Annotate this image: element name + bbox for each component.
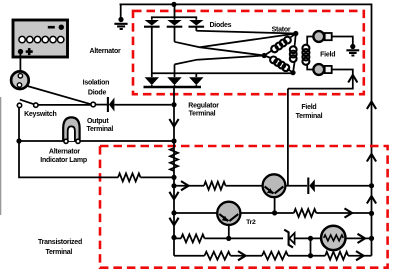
wire: diode bridge bottom bus — [144, 86, 202, 88]
resistor R6 — [205, 252, 231, 260]
current arrow: right along bottom row — [238, 251, 246, 260]
alternator boundary (red dashed box) — [133, 11, 364, 94]
node: indicator lamp row junction — [171, 138, 176, 143]
resistor R8 — [325, 252, 348, 260]
isolation diode D7 — [108, 97, 115, 112]
svg-text:Diodes: Diodes — [209, 22, 231, 29]
wire: thermistor to right rail — [346, 237, 372, 239]
svg-text:Indicator Lamp: Indicator Lamp — [40, 157, 87, 164]
node: top rail junction above diode bridge — [171, 2, 176, 7]
wire: bridge column 1 (phase A tap) — [151, 28, 153, 77]
svg-text:Isolation: Isolation — [83, 79, 110, 86]
wire: Tr2 lead down to zener row — [228, 225, 230, 239]
wire: R6 to R7 — [230, 255, 262, 257]
current arrow: right into Tr1 row — [181, 181, 189, 190]
field winding (rotor coil) — [307, 37, 313, 70]
current arrow: down on regulator lead — [169, 119, 178, 127]
node: thermistor/divider junction — [308, 236, 313, 241]
svg-text:Transistorized: Transistorized — [38, 239, 82, 246]
svg-text:Stator: Stator — [272, 26, 291, 33]
diode D1 (bridge, top row) — [144, 20, 160, 29]
current arrow: up on right rail (lower) — [367, 196, 376, 204]
resistor R2 (lamp shunt row) — [118, 173, 141, 181]
wire: keyswitch to output terminal — [38, 104, 91, 106]
svg-text:Terminal: Terminal — [45, 249, 72, 256]
thermistor TH1 — [321, 226, 345, 250]
resistor R4 (Tr1 emitter to rail) — [294, 209, 316, 217]
brush B2 (bottom slip ring brush) — [313, 64, 324, 75]
wire: ammeter to output terminal (diagonal) — [27, 86, 91, 104]
brush B1 (top slip ring brush) — [313, 31, 324, 42]
resistor R5 (zener feed) — [181, 234, 205, 242]
transistor Tr1 — [263, 174, 286, 197]
wire: top ground rail from alternator ground to right-hand return rail — [120, 4, 372, 255]
alternator indicator lamp LP1 — [63, 117, 80, 143]
current arrow: down between rows — [169, 218, 178, 226]
wire: output terminal to isolation diode — [96, 104, 108, 106]
wire: bottom brush to field terminal drop — [288, 70, 353, 89]
wire: phase lead, column 1 to stator bottom terminal — [152, 72, 293, 74]
wire: isolation diode to regulator terminal — [114, 104, 171, 106]
wire: Tr2 row left segment — [174, 212, 294, 214]
wire: R4 to right rail — [316, 212, 371, 214]
ground (alternator case ground, top left) — [114, 24, 127, 29]
current arrow: right toward rail — [358, 234, 366, 243]
wire: top brush to field ground — [332, 37, 353, 47]
node: stator left node — [262, 53, 267, 58]
node: divider tap bottom junction — [308, 253, 313, 258]
wire: battery positive to ammeter — [19, 54, 21, 72]
svg-text:Alternator: Alternator — [49, 148, 80, 155]
battery BAT1 — [13, 20, 68, 57]
scan artifact: faint gray line at left edge — [0, 97, 1, 215]
wire: R7 to R8 — [288, 255, 325, 257]
keyswitch SW1 — [17, 100, 38, 108]
wire: field terminal vertical lead down to Tr1 row — [287, 89, 289, 186]
wire: divider tap vertical — [310, 238, 312, 255]
node: stator bottom terminal — [290, 70, 295, 75]
wire: Tr1 row left segment — [174, 185, 204, 187]
stator winding: right vertical coil — [293, 34, 296, 73]
resistor R1 (vertical, regulator lead) — [170, 148, 178, 171]
svg-text:Tr2: Tr2 — [246, 219, 256, 226]
svg-text:Terminal: Terminal — [86, 126, 113, 133]
wire: zener row left segment — [174, 237, 181, 239]
node: ground stub dot — [118, 17, 123, 22]
current arrow: up on right rail (middle) — [367, 154, 376, 162]
node: Tr1 emitter junction — [272, 210, 277, 215]
diode D2 (bridge, top row) — [167, 20, 183, 29]
diode D5 (bridge, bottom row) — [167, 77, 181, 87]
node: Tr2 lead junction — [226, 236, 231, 241]
node: output terminal — [91, 102, 96, 107]
wire: phase lead, crossing to stator top terminal — [200, 34, 296, 48]
diode D3 (bridge, top row) — [189, 20, 205, 29]
wire: ground stub at top left — [120, 4, 122, 19]
ground (field return ground) — [346, 50, 359, 55]
diode D8 (feedback diode) — [308, 178, 315, 195]
svg-text:Terminal: Terminal — [189, 110, 216, 117]
resistor R7 — [262, 252, 288, 260]
svg-text:Alternator: Alternator — [90, 48, 121, 55]
node: regulator terminal junction — [171, 102, 176, 107]
stator winding: lower-left coil — [264, 56, 293, 73]
wire: R8 to right rail corner — [348, 255, 371, 257]
wire: bridge column 2 upper stub — [174, 28, 176, 42]
svg-text:Diode: Diode — [88, 89, 107, 96]
wire: zener to thermistor — [295, 237, 322, 239]
transistorized regulator boundary (red dashed box) — [100, 146, 388, 268]
current arrow: down between rows — [169, 192, 178, 200]
wire: D8 to right rail — [315, 185, 372, 187]
current arrow: right at rail corner — [356, 251, 364, 260]
wire: phase lead, column 2 lower to stator left node — [175, 56, 265, 65]
svg-text:Keyswitch: Keyswitch — [24, 111, 56, 118]
svg-text:Output: Output — [87, 118, 109, 125]
transistor Tr2 — [217, 202, 240, 225]
stator winding: upper-left coil — [264, 34, 296, 56]
node: right rail row-3 junction — [369, 236, 374, 241]
wire: phase lead, column 3 to stator top terminal — [196, 31, 295, 34]
node: Tr1 base row junction — [171, 183, 176, 188]
wire: keyswitch down the left side — [19, 108, 118, 178]
node: right rail row-1 junction — [369, 183, 374, 188]
svg-text:Terminal: Terminal — [296, 113, 323, 120]
current arrow: up toward field — [348, 75, 357, 83]
node: R1/R2 junction — [171, 175, 176, 180]
resistor R3 (Tr1 base) — [204, 182, 226, 190]
wire: bridge column 3 lower stub — [195, 73, 197, 77]
wire: R3 to diode D8 — [226, 185, 308, 187]
wire: regulator terminal vertical drop (bridge output) — [173, 88, 175, 256]
node: right rail row-2 junction — [369, 211, 374, 216]
brush B2 contact square — [325, 66, 332, 73]
diode D4 (bridge, bottom row) — [145, 77, 159, 87]
wire: indicator lamp row — [19, 140, 174, 142]
node: zener row junction — [171, 235, 176, 240]
svg-text:Regulator: Regulator — [188, 102, 219, 109]
wire: bridge column 2 lower stub — [174, 64, 176, 77]
wire: Tr1 emitter lead down — [274, 197, 276, 213]
node: Tr2 base row junction — [171, 210, 176, 215]
wire: bridge column 3 upper stub — [195, 28, 197, 31]
wire: bottom row left corner — [174, 255, 205, 257]
brush B1 contact square — [325, 33, 332, 40]
wire: R5 to zener — [205, 237, 284, 239]
svg-text:Field: Field — [320, 51, 335, 58]
current arrow: right toward rail — [345, 208, 353, 217]
diode D6 (bridge, bottom row) — [189, 77, 203, 87]
svg-text:Field: Field — [301, 104, 316, 111]
node: stator top terminal — [293, 31, 298, 36]
zener diode ZD1 — [284, 230, 294, 248]
wire: R2 to regulator lead — [141, 176, 175, 178]
node: lamp row left junction — [16, 138, 21, 143]
current arrow: up on right rail (upper) — [367, 102, 376, 110]
wire: phase lead, column 2 upper to stator left node — [175, 42, 265, 56]
ammeter / junction block — [11, 71, 29, 89]
wire: diode bridge top bus — [152, 4, 197, 19]
node: field ground stub dot — [350, 44, 355, 49]
